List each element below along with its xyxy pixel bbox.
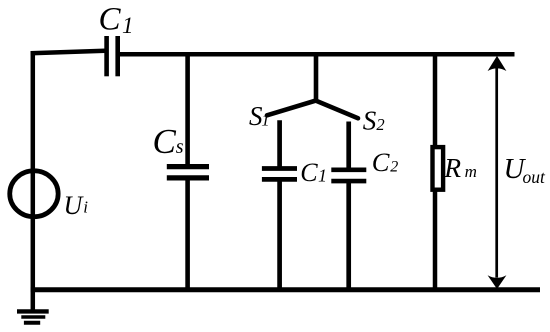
label S2 bbox=[363, 106, 385, 136]
voltage source U i (circle) bbox=[10, 171, 58, 217]
wire: top horizontal rail bbox=[120, 52, 515, 57]
svg-text:C: C bbox=[300, 158, 318, 187]
capacitor C2 bbox=[331, 170, 366, 181]
wire: S2 contact stub bbox=[346, 122, 351, 170]
svg-text:1: 1 bbox=[261, 111, 270, 130]
resistor Rm bbox=[433, 147, 444, 190]
svg-text:s: s bbox=[176, 136, 184, 158]
ground bbox=[17, 311, 49, 322]
label S1 bbox=[249, 101, 270, 131]
label Uout bbox=[504, 153, 547, 187]
label C1 bbox=[300, 158, 327, 187]
wire: switch common vertical bbox=[314, 52, 319, 101]
wire: top-left segment from source to Cl bbox=[31, 51, 105, 54]
switch S2 blade bbox=[316, 101, 359, 119]
wire: C2 lower branch bbox=[346, 181, 351, 290]
wire: Rm upper branch bbox=[433, 52, 438, 148]
svg-text:U: U bbox=[64, 191, 85, 220]
svg-text:m: m bbox=[465, 162, 477, 181]
svg-text:C: C bbox=[372, 147, 390, 177]
wire: S1 contact stub bbox=[277, 120, 282, 168]
Uout measurement arrow (double-headed) bbox=[488, 56, 507, 289]
svg-text:1: 1 bbox=[122, 13, 134, 38]
svg-text:1: 1 bbox=[318, 166, 327, 186]
svg-text:out: out bbox=[523, 167, 547, 187]
svg-text:C: C bbox=[99, 1, 122, 37]
capacitor C1 bbox=[262, 169, 297, 180]
svg-text:i: i bbox=[83, 198, 88, 217]
svg-text:2: 2 bbox=[390, 158, 398, 175]
wire: Cs lower branch bbox=[185, 178, 190, 290]
wire: bottom rail bbox=[31, 287, 540, 292]
wire: C1 lower branch bbox=[277, 179, 282, 290]
wire: left vertical rail bbox=[31, 51, 36, 312]
label C2 bbox=[372, 147, 399, 177]
svg-text:S: S bbox=[363, 106, 377, 136]
label Cl bbox=[99, 1, 134, 38]
label Cs bbox=[153, 122, 184, 161]
svg-text:R: R bbox=[443, 152, 461, 183]
svg-text:C: C bbox=[153, 122, 177, 161]
label Rm bbox=[443, 152, 477, 183]
capacitor Cl bbox=[107, 36, 118, 76]
wire: Cs upper branch bbox=[185, 52, 190, 166]
capacitor Cs bbox=[167, 167, 209, 178]
label Ui bbox=[64, 191, 89, 220]
svg-text:2: 2 bbox=[376, 115, 384, 134]
switch S1 blade bbox=[267, 101, 316, 116]
wire: Rm lower branch bbox=[433, 189, 438, 290]
